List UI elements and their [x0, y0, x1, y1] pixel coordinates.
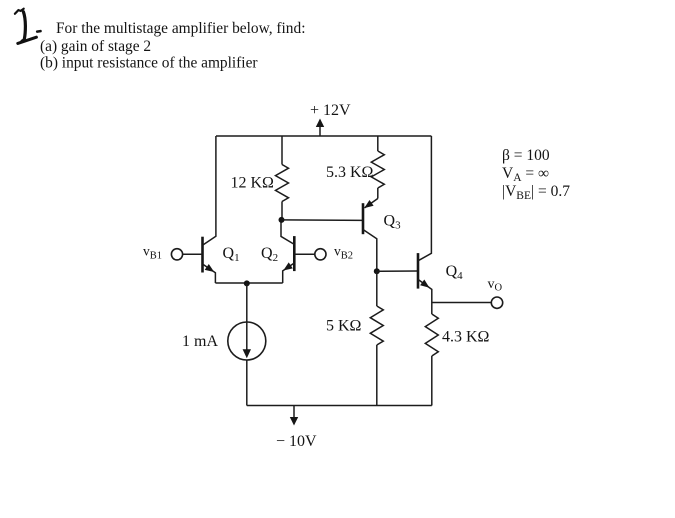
transistor Q4 base bar [417, 253, 420, 289]
svg-text:For the multistage amplifier b: For the multistage amplifier below, find… [56, 20, 305, 37]
current source 1 mA circle [228, 322, 266, 360]
svg-text:|VBE| = 0.7: |VBE| = 0.7 [502, 183, 570, 202]
node emitter tail [244, 280, 250, 286]
output terminal vO [491, 297, 502, 308]
transistor Q2 emitter [283, 263, 295, 283]
svg-text:vB2: vB2 [334, 243, 353, 261]
svg-text:+ 12V: + 12V [310, 102, 351, 119]
resistor 4.3 Kohm [425, 314, 438, 356]
svg-text:5.3 KΩ: 5.3 KΩ [326, 164, 374, 181]
svg-text:(b) input resistance of the am: (b) input resistance of the amplifier [40, 55, 258, 72]
svg-text:Q4: Q4 [446, 263, 464, 282]
svg-text:Q3: Q3 [384, 213, 402, 232]
resistor R 5.3K wires [377, 136, 379, 151]
transistor Q1 emitter [203, 264, 216, 283]
wire vB1 to Q1 base [183, 253, 203, 255]
svg-text:− 10V: − 10V [276, 433, 317, 450]
current source arrow [243, 349, 251, 358]
transistor Q4 collector [418, 136, 431, 261]
svg-text:Q1: Q1 [223, 245, 240, 264]
input terminal vB2 [315, 249, 326, 260]
svg-text:vB1: vB1 [143, 243, 162, 261]
node Q3 collector / 5K / Q4 base [374, 268, 380, 274]
svg-text:4.3 KΩ: 4.3 KΩ [442, 329, 490, 346]
wire bottom -10V rail [247, 405, 432, 407]
node R12K / Q2 collector / Q3 base [279, 217, 285, 223]
svg-text:(a) gain of stage 2: (a) gain of stage 2 [40, 38, 151, 55]
svg-text:5 KΩ: 5 KΩ [326, 318, 362, 335]
wire tail node to current source [246, 283, 248, 352]
transistor Q3 collector [363, 230, 377, 272]
transistor Q2 collector [281, 220, 294, 245]
transistor Q4 emitter [418, 279, 432, 302]
resistor 5.3 Kohm [371, 151, 384, 188]
wire emitter to output terminal [432, 302, 492, 304]
wire Q2 base to vB2 [294, 253, 315, 255]
svg-text:1 mA: 1 mA [182, 333, 218, 350]
wire node to Q3 base [282, 219, 364, 222]
wire emitter join [215, 282, 282, 284]
transistor Q3 base bar [362, 203, 365, 234]
svg-text:12 KΩ: 12 KΩ [231, 175, 275, 192]
wire top +12V rail [216, 135, 431, 137]
svg-text:vO: vO [488, 277, 503, 294]
svg-text:β = 100: β = 100 [502, 147, 550, 164]
+12V supply arrow [319, 126, 321, 136]
transistor Q1 collector [203, 136, 216, 245]
resistor 12 Kohm [276, 165, 289, 202]
transistor Q1 base bar [201, 237, 204, 273]
wire node to Q4 base [377, 270, 418, 272]
wire current source to bottom rail [246, 360, 248, 406]
-10V supply arrow [293, 406, 295, 419]
resistor R 4.3K wires [431, 303, 433, 315]
resistor R 12K wires [281, 136, 283, 165]
transistor Q2 base bar [293, 236, 296, 271]
svg-text:Q2: Q2 [261, 245, 278, 264]
resistor R 5K wires [376, 271, 378, 306]
handwritten problem number 1. [15, 9, 41, 44]
transistor Q3 emitter (arrow into bar, PNP) [365, 199, 378, 208]
resistor 5 Kohm [370, 306, 383, 345]
svg-text:VA = ∞: VA = ∞ [502, 165, 549, 184]
input terminal vB1 [171, 249, 182, 260]
